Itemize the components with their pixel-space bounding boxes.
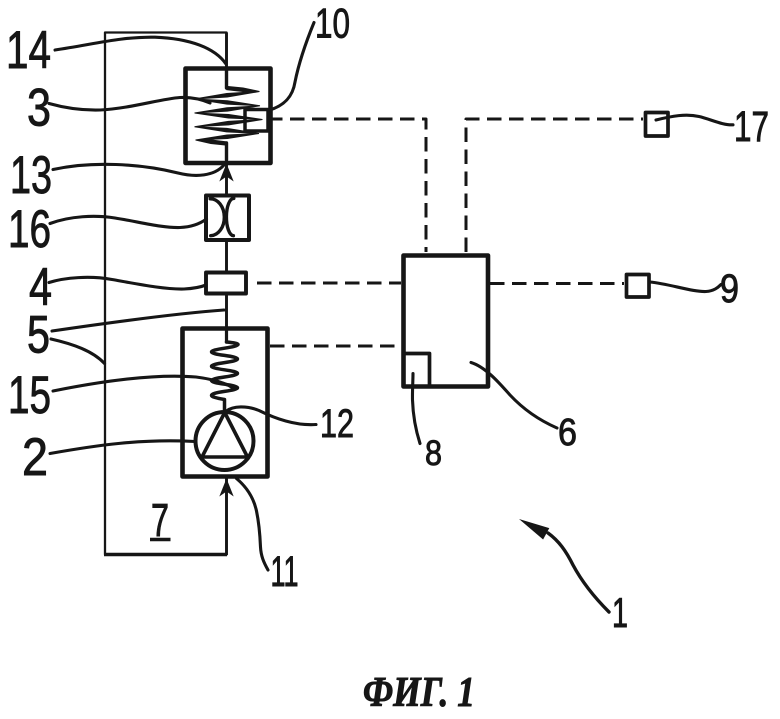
arrow 13 (below top box, pointing up): [219, 164, 233, 182]
terminal square 9: [627, 275, 650, 298]
arrow 11 (below bottom box, pointing up): [219, 479, 233, 497]
svg-text:13: 13: [10, 146, 52, 205]
leader line 5 lower: [51, 339, 105, 364]
svg-text:6: 6: [558, 412, 577, 454]
svg-text:16: 16: [8, 200, 51, 259]
leader line 12: [227, 407, 317, 425]
heat exchanger box 14 (top box): [186, 69, 271, 164]
arrow 1 head: [519, 519, 549, 540]
svg-text:12: 12: [320, 402, 354, 446]
svg-text:14: 14: [6, 21, 51, 80]
leader line 4: [49, 277, 206, 289]
svg-text:1: 1: [612, 589, 628, 636]
leader line 15: [53, 376, 233, 391]
leader line 14: [55, 37, 226, 64]
restrictor right arc: [226, 198, 233, 235]
pump triangle: [202, 413, 248, 458]
leader line 13: [53, 164, 224, 175]
svg-text:10: 10: [315, 0, 350, 47]
svg-text:ФИГ. 1: ФИГ. 1: [363, 670, 475, 716]
svg-text:11: 11: [271, 548, 299, 596]
svg-text:3: 3: [27, 79, 51, 138]
leader line 6: [471, 363, 557, 429]
leader line 17: [656, 115, 733, 125]
svg-text:2: 2: [22, 428, 48, 487]
dashed wire: bottom box to control unit: [270, 345, 401, 348]
spring 15: [212, 342, 239, 412]
svg-text:5: 5: [27, 306, 50, 365]
wire pipe into top box: [225, 70, 228, 88]
leader line 3: [49, 97, 210, 110]
dashed wire: valve 4 to control unit: [257, 282, 401, 285]
leader line 2: [50, 441, 195, 454]
leader line 16: [50, 216, 207, 227]
leader line 10: [268, 23, 314, 111]
leader line 9: [650, 282, 721, 292]
valve rectangle 4: [206, 273, 246, 294]
restrictor box 16: [206, 196, 249, 241]
coil 3 (zigzag inside top box): [194, 86, 262, 146]
svg-text:8: 8: [425, 434, 442, 473]
svg-text:15: 15: [8, 366, 51, 425]
tank box (bottom box): [183, 329, 268, 477]
sensor box 10: [245, 110, 268, 132]
dashed wire: sensor 10 to control unit top: [268, 119, 426, 252]
arrow 1 curved shaft: [548, 533, 609, 612]
leader line 11: [237, 479, 269, 571]
wire main vertical pipe: [225, 33, 228, 556]
dashed wire: control unit top to square 17: [466, 119, 643, 252]
pump circle 12: [196, 412, 254, 470]
svg-text:17: 17: [734, 103, 769, 151]
dashed wire: control unit to square 9: [490, 282, 624, 285]
wire pipe into bottom box: [225, 328, 228, 342]
sub-module square 8: [404, 354, 430, 387]
leader line 5 upper: [52, 310, 224, 331]
terminal square 17: [646, 113, 669, 137]
leader line 8: [412, 374, 420, 444]
control unit box 6: [404, 256, 489, 387]
enclosure rectangle 7: [105, 33, 227, 555]
restrictor left arc: [210, 199, 224, 236]
svg-text:9: 9: [720, 267, 739, 311]
